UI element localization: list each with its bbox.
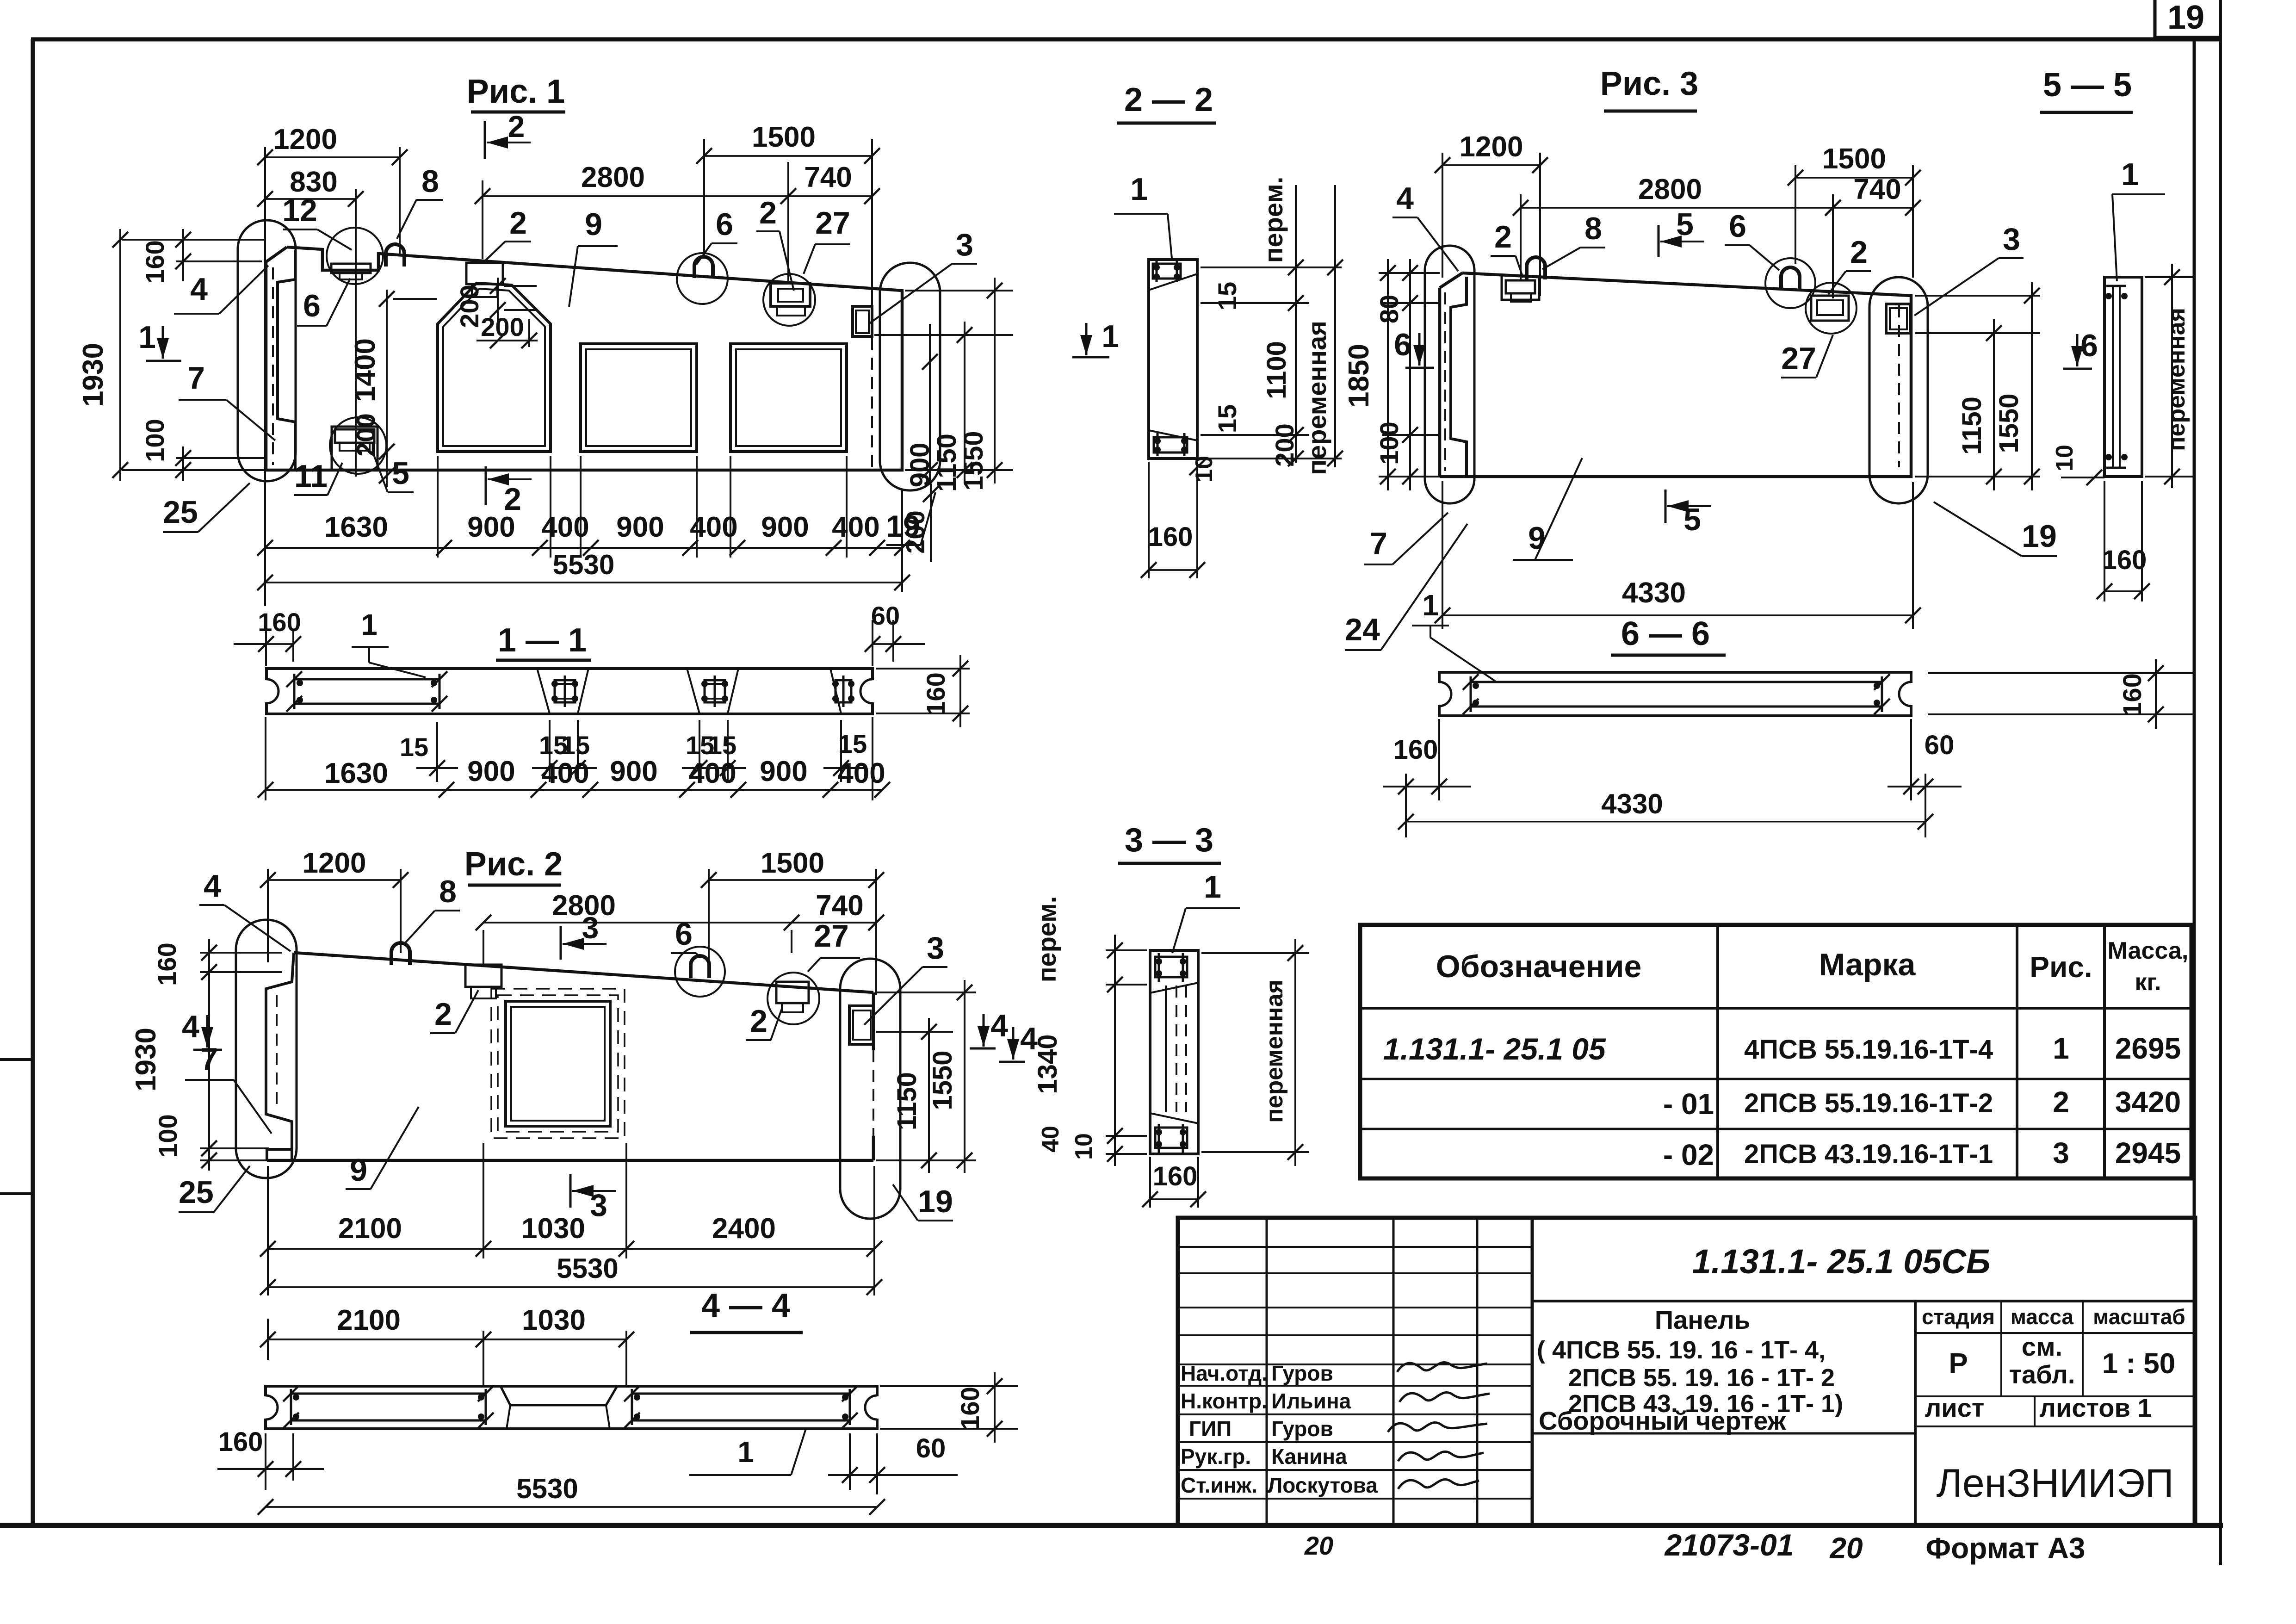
svg-text:1: 1	[138, 320, 156, 355]
section 1-1 rib 1	[537, 669, 550, 713]
page number box 19	[2154, 0, 2157, 37]
svg-text:2800: 2800	[581, 161, 645, 193]
svg-text:1500: 1500	[1822, 143, 1886, 175]
fig 3 dim 4330	[1442, 481, 1443, 629]
section 1-1 dim 160 left	[265, 629, 267, 666]
svg-text:900: 900	[610, 756, 657, 787]
fig 2 insert 3	[849, 1006, 873, 1044]
svg-text:3420: 3420	[2115, 1085, 2181, 1119]
svg-text:1930: 1930	[77, 343, 109, 407]
sheet frame	[31, 37, 2221, 42]
fig 1 left end outer face	[266, 247, 287, 262]
svg-text:20: 20	[1304, 1531, 1333, 1560]
svg-text:Гуров: Гуров	[1271, 1361, 1333, 1385]
section 3-3 bottom slope line	[1150, 1113, 1198, 1123]
fig 2 dim 1200	[267, 869, 269, 962]
svg-text:1030: 1030	[522, 1304, 586, 1336]
svg-text:Н.контр.: Н.контр.	[1181, 1389, 1268, 1413]
section 4-4 right embedded plate	[632, 1393, 850, 1395]
fig 1 dashed line right end	[871, 338, 873, 467]
svg-text:4 — 4: 4 — 4	[701, 1287, 790, 1324]
svg-text:3: 3	[927, 930, 944, 966]
svg-text:Лоскутова: Лоскутова	[1268, 1473, 1378, 1497]
svg-text:4: 4	[190, 272, 208, 307]
section 6-6 embedded plate	[1471, 681, 1882, 683]
section 2-2 top slope line	[1149, 274, 1197, 290]
fig 3 insert 27	[1811, 296, 1849, 321]
svg-text:20: 20	[1829, 1531, 1863, 1565]
svg-text:6 — 6: 6 — 6	[1621, 615, 1710, 652]
svg-text:160: 160	[955, 1387, 984, 1430]
svg-text:1400: 1400	[349, 338, 381, 402]
svg-text:Сборочный чертеж: Сборочный чертеж	[1539, 1406, 1787, 1435]
svg-text:лист: лист	[1925, 1393, 1985, 1422]
svg-text:160: 160	[1153, 1161, 1198, 1191]
fig 1 dim 1200	[264, 147, 266, 606]
svg-text:1: 1	[1204, 869, 1221, 905]
title block name cell	[1532, 1432, 1915, 1435]
svg-text:1: 1	[361, 608, 378, 641]
svg-text:2800: 2800	[1638, 174, 1702, 205]
fig 3 insert 3	[1886, 304, 1910, 333]
svg-text:160: 160	[140, 240, 169, 283]
svg-text:900: 900	[467, 511, 515, 543]
fig 1 detail circle bottom-left	[330, 417, 386, 474]
svg-text:2ПСВ 55.19.16-1Т-2: 2ПСВ 55.19.16-1Т-2	[1744, 1088, 1993, 1118]
svg-text:15: 15	[838, 729, 867, 758]
svg-text:1: 1	[2121, 157, 2139, 192]
svg-text:Гуров: Гуров	[1271, 1417, 1333, 1441]
svg-text:100: 100	[140, 419, 169, 462]
svg-text:Канина: Канина	[1271, 1444, 1347, 1469]
fig 3 dim 2800	[1520, 194, 1522, 280]
fig 2 detail circle 27	[767, 973, 819, 1024]
fig 2 dim 2800	[483, 930, 484, 967]
fig 2 insert 27	[776, 982, 809, 1003]
svg-text:2: 2	[508, 109, 525, 143]
svg-text:( 4ПСВ 55. 19. 16 - 1Т- 4,: ( 4ПСВ 55. 19. 16 - 1Т- 4,	[1537, 1336, 1826, 1364]
svg-text:15: 15	[708, 731, 736, 760]
fig 1 dim 100 left	[176, 457, 266, 459]
section 1-1 left recess	[264, 680, 269, 702]
svg-text:740: 740	[1853, 174, 1901, 205]
fig 1 right detail capsule	[880, 263, 940, 490]
fig 3 right dims 1150 1550	[1915, 332, 2040, 334]
svg-text:160: 160	[258, 607, 301, 637]
section 6-6 left recess	[1436, 683, 1442, 705]
svg-text:2400: 2400	[712, 1213, 776, 1245]
svg-text:Рис. 1: Рис. 1	[467, 73, 565, 110]
svg-text:10: 10	[2051, 445, 2078, 471]
fig 2 section mark 3 bottom	[569, 1174, 572, 1208]
fig 1 section mark 2 top	[484, 121, 486, 159]
section 3-3 top anchor plate	[1155, 957, 1187, 977]
fig 3 detail circle 27	[1806, 283, 1857, 334]
svg-text:Нач.отд.: Нач.отд.	[1181, 1361, 1268, 1385]
svg-text:60: 60	[916, 1433, 946, 1463]
fig 2 left capsule	[236, 920, 297, 1178]
svg-text:Рис. 2: Рис. 2	[464, 846, 563, 883]
section 2-2 dim 160	[1148, 462, 1150, 578]
svg-text:6: 6	[1394, 327, 1411, 362]
svg-text:1: 1	[1130, 172, 1148, 207]
svg-text:27: 27	[815, 205, 850, 241]
fig 3 dim 1850	[1387, 259, 1389, 490]
svg-text:5530: 5530	[516, 1473, 578, 1504]
section 2-2 top anchor plate	[1153, 264, 1181, 279]
svg-text:1630: 1630	[324, 511, 388, 543]
svg-text:15: 15	[561, 731, 590, 760]
title block doc number	[1532, 1300, 2195, 1302]
svg-text:100: 100	[1374, 421, 1404, 465]
svg-text:3: 3	[590, 1188, 607, 1223]
fig 1 dim 1930 left	[119, 229, 121, 481]
svg-text:ГИП: ГИП	[1189, 1417, 1232, 1441]
svg-text:масштаб: масштаб	[2093, 1305, 2185, 1329]
fig 2 right capsule	[840, 959, 900, 1219]
title block sheet row	[1915, 1395, 2195, 1397]
fig 2 detail circle 6	[675, 947, 725, 997]
fig 2 window opening	[506, 1001, 610, 1126]
svg-text:Марка: Марка	[1819, 947, 1916, 982]
svg-text:900: 900	[905, 443, 935, 488]
svg-text:160: 160	[2117, 673, 2147, 716]
svg-text:27: 27	[814, 918, 849, 954]
fig 1 notch plate detail 6	[331, 264, 371, 273]
svg-text:1100: 1100	[1262, 341, 1292, 399]
section 6-6 dim 160 right side	[1928, 672, 2195, 674]
fig 1 chamfer dim 200 vertical	[497, 278, 499, 329]
svg-text:19: 19	[2167, 0, 2204, 36]
materials table	[1360, 925, 2191, 1178]
svg-text:1.131.1- 25.1 05СБ: 1.131.1- 25.1 05СБ	[1692, 1242, 1991, 1281]
svg-text:Ильина: Ильина	[1271, 1389, 1351, 1413]
fig 2 bottom dim chain	[483, 1143, 484, 1258]
svg-text:4ПСВ 55.19.16-1Т-4: 4ПСВ 55.19.16-1Т-4	[1744, 1035, 1993, 1065]
svg-text:900: 900	[761, 511, 809, 543]
svg-text:табл.: табл.	[2009, 1360, 2075, 1389]
svg-text:1: 1	[737, 1435, 754, 1469]
section 1-1 embedded plate	[294, 678, 439, 681]
svg-text:15: 15	[400, 732, 428, 762]
svg-text:60: 60	[1925, 730, 1955, 760]
section 4-4 left embedded plate	[291, 1393, 486, 1395]
fig 2 section mark 3 top	[560, 926, 562, 960]
fig 1 detail circle top-left	[327, 228, 383, 284]
svg-text:2: 2	[750, 1004, 767, 1039]
svg-text:переменная: переменная	[1261, 979, 1288, 1123]
svg-text:- 01: - 01	[1663, 1087, 1714, 1121]
fig 1 insert 3	[853, 306, 872, 336]
svg-text:5 — 5: 5 — 5	[2043, 67, 2132, 104]
svg-text:1200: 1200	[303, 847, 366, 879]
section 1-1 dim 160 right	[876, 668, 970, 669]
svg-text:10: 10	[1071, 1133, 1097, 1160]
svg-text:переменная: переменная	[1302, 321, 1331, 475]
svg-text:4: 4	[204, 868, 221, 904]
svg-text:24: 24	[1345, 612, 1380, 647]
section 3-3 bottom anchor plate	[1155, 1128, 1187, 1148]
svg-text:19: 19	[2022, 519, 2057, 554]
title block signature grid	[1531, 1218, 1534, 1525]
svg-text:160: 160	[1393, 735, 1438, 765]
svg-text:740: 740	[816, 890, 863, 922]
svg-text:19: 19	[918, 1184, 953, 1219]
section 5-5 dim 160	[2104, 481, 2105, 601]
fig 3 dim 740	[1833, 207, 1913, 209]
fig 2 insert 2 top	[465, 965, 501, 987]
section 1-1 dim 60 right	[872, 620, 873, 666]
svg-text:27: 27	[1781, 341, 1816, 376]
section 2-2 bottom slope line	[1149, 430, 1197, 440]
svg-text:2945: 2945	[2115, 1136, 2181, 1170]
section 6-6 dim 4330	[1406, 821, 1925, 823]
svg-text:160: 160	[2102, 545, 2147, 575]
svg-text:2695: 2695	[2115, 1032, 2181, 1065]
fig 2 left dims	[200, 952, 282, 954]
fig 3 dim 1200	[1442, 153, 1443, 278]
fig 3 section mark 5 top	[1658, 225, 1660, 257]
svg-text:3: 3	[2003, 222, 2020, 257]
svg-text:4: 4	[1396, 181, 1414, 216]
fold marks	[0, 1058, 33, 1061]
svg-text:40: 40	[1037, 1126, 1064, 1153]
svg-text:1500: 1500	[761, 847, 824, 879]
fig 1 bottom-left notch detail 5	[332, 427, 378, 470]
svg-text:25: 25	[163, 495, 198, 530]
svg-text:9: 9	[1528, 521, 1546, 556]
fig 1 dim 1500	[703, 139, 705, 257]
fig 3 right capsule	[1869, 277, 1928, 503]
svg-text:160: 160	[1148, 522, 1193, 552]
svg-text:1550: 1550	[959, 431, 989, 490]
svg-text:60: 60	[871, 601, 900, 630]
svg-text:8: 8	[439, 874, 457, 909]
svg-text:1.131.1- 25.1 05: 1.131.1- 25.1 05	[1383, 1032, 1606, 1066]
fig 2 dim 740	[792, 922, 876, 924]
svg-text:200: 200	[1270, 423, 1299, 466]
fig 1 dim 5530	[265, 582, 902, 583]
fig 1 panel outline	[266, 247, 902, 470]
svg-text:стадия: стадия	[1922, 1305, 1995, 1329]
svg-text:4: 4	[990, 1008, 1008, 1043]
svg-text:80: 80	[1374, 295, 1404, 323]
section 5-5 outline	[2104, 277, 2142, 477]
fig 1 dim 740	[787, 162, 789, 282]
fig 1 opening square 2	[581, 344, 697, 452]
svg-text:масса: масса	[2011, 1305, 2074, 1329]
svg-text:1550: 1550	[928, 1050, 958, 1110]
svg-text:5: 5	[392, 456, 409, 491]
svg-text:3: 3	[582, 911, 599, 945]
svg-text:400: 400	[837, 757, 885, 789]
svg-text:перем.: перем.	[1032, 896, 1061, 983]
svg-text:21073-01: 21073-01	[1664, 1528, 1794, 1562]
fig 3 left end dashed line	[1444, 292, 1446, 471]
svg-text:160: 160	[152, 942, 181, 986]
svg-text:200: 200	[901, 510, 930, 553]
svg-text:5530: 5530	[557, 1253, 618, 1284]
svg-text:Обозначение: Обозначение	[1436, 949, 1642, 984]
svg-text:5530: 5530	[553, 549, 614, 580]
fig 1 lifting loop 8	[386, 244, 404, 267]
section 4-4 strip outline	[266, 1386, 877, 1429]
fig 2 panel outline	[294, 953, 873, 992]
svg-text:3: 3	[2053, 1136, 2069, 1170]
svg-text:1150: 1150	[1957, 397, 1987, 455]
svg-text:Ст.инж.: Ст.инж.	[1181, 1473, 1257, 1497]
svg-text:6: 6	[716, 207, 733, 242]
svg-text:900: 900	[467, 756, 515, 787]
svg-text:5: 5	[1683, 502, 1701, 537]
section 3-3 inner lines	[1165, 986, 1167, 1112]
svg-text:1850: 1850	[1343, 344, 1375, 408]
svg-text:Рис.: Рис.	[2030, 950, 2092, 984]
svg-text:3 — 3: 3 — 3	[1125, 822, 1213, 859]
svg-text:см.: см.	[2022, 1332, 2062, 1361]
svg-text:15: 15	[1213, 282, 1242, 310]
fig 3 left end inner profile	[1451, 277, 1467, 476]
fig 1 insert 27 right	[771, 283, 810, 306]
section 3-3 outline	[1150, 950, 1198, 1154]
svg-text:ЛенЗНИИЭП: ЛенЗНИИЭП	[1936, 1461, 2173, 1506]
svg-text:1 — 1: 1 — 1	[498, 622, 587, 659]
section 3-3 right dim	[1201, 952, 1309, 954]
svg-text:1200: 1200	[273, 124, 337, 155]
section 4-4 dim 160 right side	[880, 1385, 1018, 1387]
section 3-3 top slope line	[1150, 983, 1198, 993]
svg-text:400: 400	[541, 757, 589, 789]
fig 1 dim 830	[355, 189, 357, 228]
title block signatures	[1397, 1362, 1487, 1372]
fig 1 dim 2800	[482, 180, 483, 259]
svg-text:200: 200	[455, 285, 484, 328]
fig 3 dim 1500	[1795, 165, 1796, 264]
svg-text:Масса,: Масса,	[2108, 937, 2189, 964]
svg-text:1630: 1630	[324, 757, 388, 789]
svg-text:кг.: кг.	[2135, 969, 2161, 996]
svg-text:4330: 4330	[1622, 577, 1686, 609]
fig 1 dim 1400 and 200 at pentagon	[386, 290, 388, 487]
fig 3 left capsule	[1425, 246, 1474, 503]
svg-text:4330: 4330	[1601, 788, 1663, 819]
svg-text:Рук.гр.: Рук.гр.	[1181, 1444, 1251, 1469]
svg-text:Формат А3: Формат А3	[1926, 1531, 2086, 1565]
svg-text:1930: 1930	[130, 1028, 162, 1091]
svg-text:2100: 2100	[337, 1304, 401, 1336]
svg-text:5: 5	[1676, 207, 1694, 242]
section 1-1 strip outline	[266, 669, 873, 714]
svg-text:6: 6	[303, 288, 321, 323]
section 1-1 dim chain	[265, 717, 266, 800]
svg-text:Панель: Панель	[1655, 1305, 1750, 1334]
svg-text:2: 2	[1850, 235, 1868, 270]
fig 3 lifting loop 8	[1527, 257, 1545, 279]
fig 1 left detail capsule	[238, 220, 296, 481]
fig 3 detail circle 6	[1765, 258, 1815, 308]
svg-text:1030: 1030	[521, 1213, 585, 1245]
title block frame	[1178, 1218, 2195, 1525]
svg-text:1150: 1150	[932, 434, 962, 492]
section 4-4 dim 5530	[266, 1506, 877, 1508]
section 4-4 dims 2100 1030	[267, 1319, 269, 1360]
fig 2 dim 5530	[268, 1286, 874, 1288]
fig 1 bottom dim chain	[437, 456, 439, 558]
svg-text:2100: 2100	[338, 1213, 402, 1245]
svg-text:2ПСВ 43.19.16-1Т-1: 2ПСВ 43.19.16-1Т-1	[1744, 1139, 1993, 1169]
fig 1 left end inner profile	[278, 250, 295, 469]
svg-text:2: 2	[509, 205, 527, 241]
svg-text:1: 1	[1422, 589, 1439, 622]
section 3-3 left dims	[1106, 949, 1147, 951]
fig 1 section mark 2 bottom	[485, 466, 487, 505]
svg-text:11: 11	[294, 459, 328, 494]
fig 2 window dashed outer	[491, 989, 625, 1138]
svg-text:160: 160	[921, 672, 950, 715]
svg-text:7: 7	[187, 360, 205, 396]
fig 3 loop 6	[1781, 267, 1800, 290]
fig 2 lifting loop 8	[391, 943, 410, 965]
svg-text:9: 9	[350, 1153, 367, 1188]
section 6-6 strip outline	[1439, 672, 1911, 716]
fig 2 loop 6	[691, 956, 709, 978]
svg-text:8: 8	[421, 164, 439, 199]
section 1-1 rib 2	[687, 669, 699, 713]
section 4-4 left recess	[263, 1396, 268, 1419]
svg-text:4: 4	[182, 1009, 199, 1044]
fig 3 section mark 5 bottom	[1665, 490, 1667, 523]
svg-text:1 : 50: 1 : 50	[2102, 1348, 2176, 1380]
svg-text:1: 1	[1102, 319, 1119, 354]
svg-text:2: 2	[759, 195, 777, 230]
svg-text:15: 15	[1213, 404, 1242, 433]
svg-text:1340: 1340	[1033, 1034, 1063, 1094]
svg-text:100: 100	[153, 1114, 182, 1157]
svg-text:400: 400	[688, 757, 736, 789]
section 2-2 outline	[1149, 260, 1197, 459]
fig 1 detail circle 27	[763, 274, 815, 326]
fig 3 left end outer face	[1440, 273, 1462, 288]
svg-text:740: 740	[804, 161, 852, 193]
section 1-1 right recess	[870, 680, 875, 702]
svg-text:400: 400	[541, 511, 589, 543]
svg-text:3: 3	[956, 227, 973, 262]
svg-text:2: 2	[2053, 1085, 2069, 1119]
svg-text:8: 8	[1584, 211, 1602, 246]
svg-text:1: 1	[2053, 1032, 2069, 1065]
svg-text:7: 7	[200, 1041, 218, 1077]
svg-text:6: 6	[1729, 209, 1746, 244]
section 4-4 right recess	[874, 1396, 880, 1419]
svg-text:переменная: переменная	[2163, 308, 2190, 451]
svg-text:9: 9	[585, 207, 602, 242]
svg-text:6: 6	[2080, 328, 2098, 363]
fig 1 left end dashed line	[272, 267, 274, 465]
fig 1 detail circle 6	[677, 253, 728, 304]
svg-text:Р: Р	[1949, 1348, 1968, 1380]
fig 3 panel outline	[1440, 273, 1911, 477]
fig 1 chamfer dim 200 horizontal	[477, 340, 538, 341]
section 1-1 rib 3	[830, 669, 841, 713]
svg-text:160: 160	[218, 1427, 263, 1457]
svg-text:листов 1: листов 1	[2039, 1393, 2152, 1422]
section 5-5 embedded plate	[2112, 286, 2114, 468]
fig 1 opening pentagon	[438, 283, 551, 452]
fig 3 left dims 80 100	[1379, 272, 1440, 274]
svg-text:6: 6	[675, 917, 693, 952]
fig 2 right dims	[876, 992, 976, 993]
fig 1 opening square 3	[730, 344, 847, 452]
